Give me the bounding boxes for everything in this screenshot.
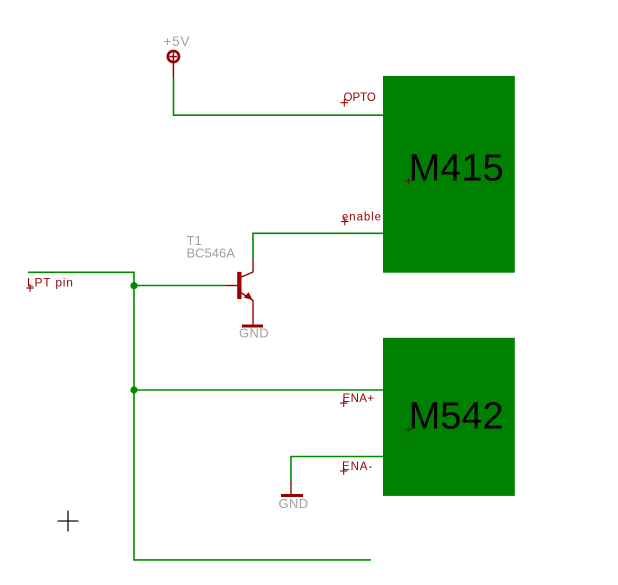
pin label LPT pin [26,276,73,292]
base pin stub [226,285,237,287]
pin label ENA- [340,461,373,475]
IC M415 [383,76,515,273]
emitter diagonal [242,293,253,300]
emitter arrow [244,292,253,300]
ground GND2 bar [281,494,303,497]
svg-text:LPT pin: LPT pin [27,276,74,290]
ground GND1 (below T1) [242,325,263,328]
junction at base wire [130,282,137,289]
M415 value label [406,148,504,190]
pin label ENA+ [340,393,374,407]
wire base tee (junction to T1 base) [134,285,226,287]
pin label enable [341,212,382,226]
origin cross marker [58,511,79,532]
pin label OPTO [341,92,376,107]
emitter pin vertical [252,300,254,327]
junction at ENA+ wire [130,386,137,393]
IC M542 [383,338,515,496]
svg-text:+5V: +5V [164,34,191,49]
base bar [237,272,241,299]
transistor Q T1 BC546A [226,260,253,328]
M542 value label [406,396,504,438]
svg-text:GND: GND [279,496,309,511]
+5V supply symbol [168,51,179,77]
wire ENA- [291,457,383,483]
collector diagonal [242,272,254,277]
svg-text:GND: GND [239,326,269,341]
svg-text:OPTO: OPTO [344,92,376,104]
collector pin vertical [252,260,254,273]
wire +5V to OPTO pin of M415 [174,77,384,115]
ground GND2 pin stub [290,482,292,494]
svg-text:M542: M542 [409,396,504,438]
svg-text:M415: M415 [409,148,504,190]
wire ENA+ [134,389,383,391]
svg-text:BC546A: BC546A [187,246,236,261]
wire LPT pin trunk [28,272,371,560]
wire enable: M415 to T1 collector [253,233,383,259]
